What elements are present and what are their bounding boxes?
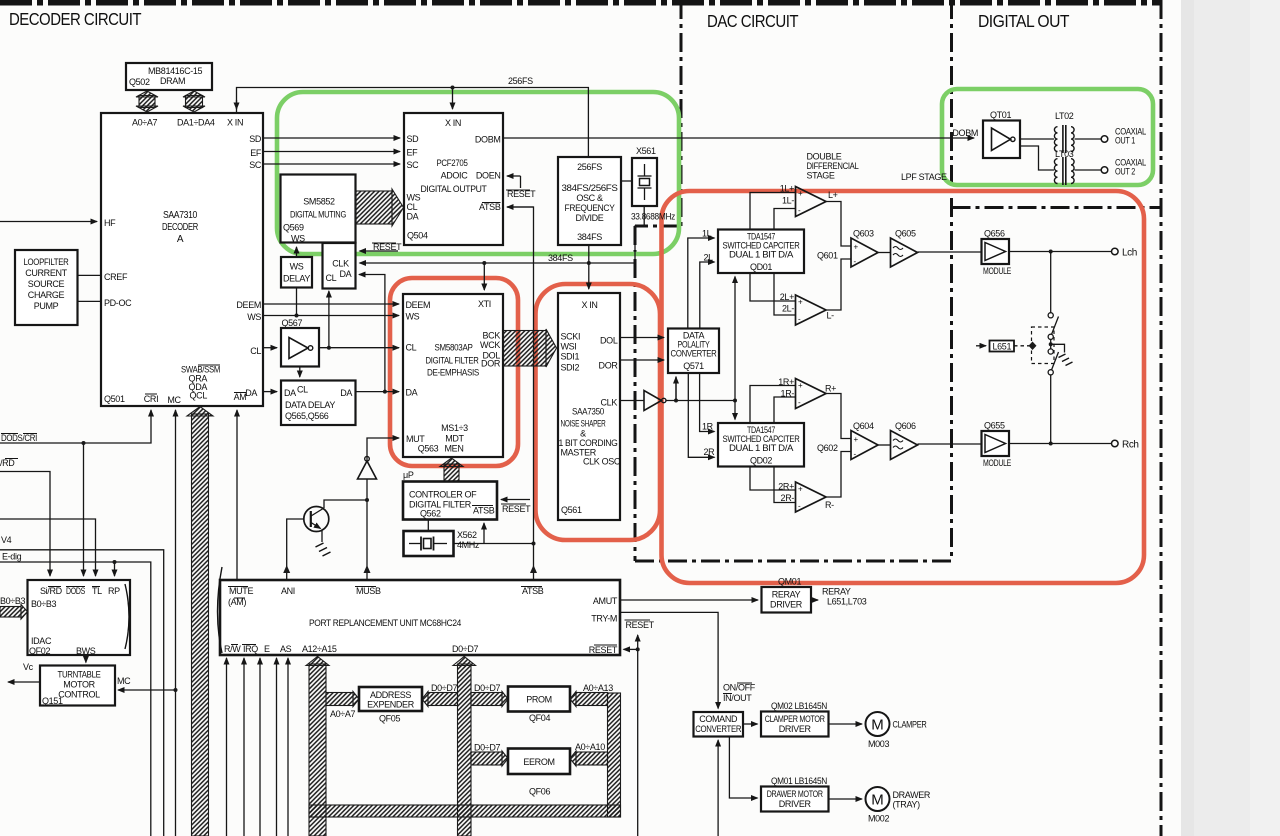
svg-text:B0÷B3: B0÷B3 xyxy=(31,599,57,609)
CLAMPER MOTOR DRIVER block xyxy=(761,712,829,737)
svg-text:WS: WS xyxy=(290,262,304,272)
svg-text:TURNTABLE: TURNTABLE xyxy=(58,670,101,680)
svg-text:OUT 1: OUT 1 xyxy=(1115,136,1135,146)
svg-text:Q567: Q567 xyxy=(282,318,303,328)
svg-text:WS: WS xyxy=(407,193,421,203)
wire R- output to Q604 xyxy=(826,452,851,498)
svg-text:SDI2: SDI2 xyxy=(561,363,580,373)
wire Q567 down into DATA DELAY xyxy=(299,367,301,378)
svg-text:+: + xyxy=(798,189,803,198)
svg-text:RERAY: RERAY xyxy=(822,587,851,597)
svg-text:R-: R- xyxy=(825,500,834,510)
svg-text:COMAND: COMAND xyxy=(699,714,738,724)
svg-text:Q563: Q563 xyxy=(418,444,439,454)
wire MC from SAA7310 to bottom, branch to turntable xyxy=(118,410,178,836)
ADDRESS EXPENDER block QF05 xyxy=(359,687,422,724)
bus A12-A15 from PORT down xyxy=(306,657,329,836)
svg-text:E-dig: E-dig xyxy=(2,552,22,562)
wire HF from left edge xyxy=(0,221,97,223)
svg-text:SC: SC xyxy=(249,160,262,170)
net 256FS: label and wire across top xyxy=(237,76,589,157)
svg-text:LPF STAGE: LPF STAGE xyxy=(901,172,947,182)
net RESET at PORT right xyxy=(624,620,655,836)
svg-text:Q151: Q151 xyxy=(42,696,63,706)
svg-text:ADDRESS: ADDRESS xyxy=(370,690,411,700)
net E-dig (label + wire, branch to RP) xyxy=(0,552,151,836)
svg-text:Si/RD: Si/RD xyxy=(40,586,63,596)
wire Q562 to X562 left xyxy=(427,520,429,532)
svg-text:L651: L651 xyxy=(992,342,1011,352)
svg-text:TRY-M: TRY-M xyxy=(591,614,617,624)
bus B0-B3 hatched into QF02 xyxy=(0,607,21,618)
svg-text:2L-: 2L- xyxy=(782,304,794,314)
svg-text:CLAMPER: CLAMPER xyxy=(893,720,928,730)
svg-text:1L-: 1L- xyxy=(782,196,794,206)
svg-text:Q655: Q655 xyxy=(984,421,1005,431)
wire WS delay to SM5852 xyxy=(296,247,298,257)
svg-text:Vc: Vc xyxy=(23,662,34,672)
svg-text:ATSB: ATSB xyxy=(473,506,495,516)
svg-text:DA1÷DA4: DA1÷DA4 xyxy=(177,118,215,128)
svg-text:MS1÷3: MS1÷3 xyxy=(441,423,468,433)
svg-text:Rch: Rch xyxy=(1122,440,1139,451)
digital out driver QT01 xyxy=(983,110,1020,158)
svg-text:DIGITAL OUTPUT: DIGITAL OUTPUT xyxy=(421,184,488,194)
svg-text:-: - xyxy=(798,502,801,511)
svg-text:QT01: QT01 xyxy=(990,110,1011,120)
wire PD-OC xyxy=(78,300,102,302)
wire DOR SAA7350 to Q571 xyxy=(620,359,664,361)
wire 2R from Q571 to QD02 xyxy=(688,373,715,457)
net /RD (label + wire to Si/RD) xyxy=(0,458,50,576)
wire CL into Q567 xyxy=(263,347,277,349)
svg-text:33.8688MHz: 33.8688MHz xyxy=(631,212,676,222)
svg-text:Q605: Q605 xyxy=(895,229,916,239)
wire Q603 to Q605 xyxy=(878,252,891,254)
wire AS stub below PORT xyxy=(276,658,278,836)
svg-text:1L+: 1L+ xyxy=(780,184,794,194)
amp Q603 xyxy=(851,229,878,268)
svg-text:CURRENT: CURRENT xyxy=(25,268,67,278)
wire QT01 to LT02 xyxy=(1020,138,1054,140)
DAC circuit dash-dot border jog xyxy=(635,225,681,228)
svg-text:V4: V4 xyxy=(1,535,12,545)
labels ON/OFF IN/OUT xyxy=(723,683,756,704)
svg-text:-: - xyxy=(798,315,801,324)
PCF2705 ADOIC digital output block Q504 xyxy=(404,113,503,245)
svg-text:SM5852: SM5852 xyxy=(303,197,335,207)
svg-text:CONVERTER: CONVERTER xyxy=(695,724,742,734)
svg-text:WSI: WSI xyxy=(561,342,577,352)
wire drawer driver to motor M002 xyxy=(829,798,863,800)
DAC/DIGITAL OUT divider dash-dot vertical xyxy=(950,0,953,561)
svg-text:384FS: 384FS xyxy=(577,232,602,242)
svg-text:CLK: CLK xyxy=(332,259,349,269)
svg-text:PCF2705: PCF2705 xyxy=(437,158,468,168)
svg-text:PUMP: PUMP xyxy=(34,301,59,311)
coaxial out 1 terminal xyxy=(1101,127,1146,146)
svg-text:DIGITAL FILTER: DIGITAL FILTER xyxy=(426,356,480,366)
bus ring right vertical xyxy=(608,693,621,817)
svg-text:CHARGE: CHARGE xyxy=(28,290,65,300)
svg-text:WS: WS xyxy=(291,234,305,244)
svg-text:DOEN: DOEN xyxy=(476,171,501,181)
wire 2L from Q571 to QD01 xyxy=(700,253,715,329)
label DOUBLE DIFFERENCIAL STAGE xyxy=(807,152,859,181)
svg-text:A0÷A10: A0÷A10 xyxy=(575,742,605,752)
svg-text:D0÷D7: D0÷D7 xyxy=(474,743,501,753)
wire AMUT to reray driver xyxy=(620,599,758,601)
wire 2R- QD02 to opamp xyxy=(774,467,796,503)
LOOPFILTER block xyxy=(15,250,78,325)
wire DEEM xyxy=(263,303,399,305)
svg-text:CL: CL xyxy=(297,385,308,395)
svg-text:RESET: RESET xyxy=(589,645,618,655)
svg-text:Q601: Q601 xyxy=(817,251,838,261)
svg-text:EEROM: EEROM xyxy=(523,757,554,767)
svg-text:DA: DA xyxy=(340,388,352,398)
svg-text:AM: AM xyxy=(234,392,247,402)
svg-text:DRAWER: DRAWER xyxy=(893,790,931,800)
svg-text:2R-: 2R- xyxy=(781,493,795,503)
svg-text:DIGITAL OUT: DIGITAL OUT xyxy=(978,11,1070,31)
SM5803AP digital filter block Q563 xyxy=(403,294,503,457)
svg-text:LOOPFILTER: LOOPFILTER xyxy=(24,257,70,267)
svg-text:MC: MC xyxy=(117,676,131,686)
svg-text:CLK OSC: CLK OSC xyxy=(583,457,621,467)
svg-text:X IN: X IN xyxy=(581,300,597,310)
wire Vc (arrow left) xyxy=(8,662,40,682)
svg-text:QM01 LB1645N: QM01 LB1645N xyxy=(771,776,827,786)
svg-text:WS: WS xyxy=(406,312,420,322)
bus A12 branch to ADDRESS EXPENDER xyxy=(326,692,359,720)
svg-text:MUTE: MUTE xyxy=(229,586,253,596)
svg-text:NOISE SHAPER: NOISE SHAPER xyxy=(561,419,607,429)
svg-text:DRIVER: DRIVER xyxy=(779,724,812,734)
svg-text:L+: L+ xyxy=(828,190,838,200)
DAC TDA1547 QD01 xyxy=(718,230,804,274)
bus D0-D7 from PORT down xyxy=(453,657,476,836)
WS DELAY block xyxy=(281,257,312,288)
mute driver triangle with bubble xyxy=(358,456,377,479)
svg-text:A0÷A13: A0÷A13 xyxy=(583,683,613,693)
svg-text:SM5803AP: SM5803AP xyxy=(435,343,473,353)
bus EEROM to ring right xyxy=(570,742,608,766)
svg-text:A0÷A7: A0÷A7 xyxy=(132,118,158,128)
svg-text:X IN: X IN xyxy=(227,118,243,128)
svg-text:QF04: QF04 xyxy=(529,713,550,723)
svg-text:SC: SC xyxy=(407,160,420,170)
svg-text:DIFFERENCIAL: DIFFERENCIAL xyxy=(807,161,859,171)
svg-text:Q502: Q502 xyxy=(129,77,150,87)
svg-text:+: + xyxy=(798,298,803,307)
CONTROLER OF DIGITAL FILTER block Q562 xyxy=(403,482,497,520)
wire comand to drawer driver xyxy=(729,737,757,799)
green annotation box 2 (digital out area) xyxy=(942,89,1153,185)
svg-text:DA: DA xyxy=(284,388,296,398)
transformer LT02 xyxy=(1054,111,1074,153)
svg-text:Q603: Q603 xyxy=(853,229,874,239)
svg-text:MB81416C-15: MB81416C-15 xyxy=(148,66,203,76)
svg-text:BCK: BCK xyxy=(483,331,501,341)
wire DOBM long line to QT01 xyxy=(503,137,974,139)
svg-text:QM01: QM01 xyxy=(778,577,801,587)
svg-text:L651,L703: L651,L703 xyxy=(827,597,867,607)
svg-text:1 BIT CORDING: 1 BIT CORDING xyxy=(559,438,618,448)
EEROM block QF06 xyxy=(508,749,570,797)
svg-text:CL: CL xyxy=(406,343,417,353)
svg-text:R/W: R/W xyxy=(224,644,241,654)
wire CL Q567 to SM5803AP xyxy=(319,347,399,349)
LPF Q606 xyxy=(891,421,918,460)
svg-text:D0÷D7: D0÷D7 xyxy=(431,683,458,693)
wire 2L- QD01 to opamp xyxy=(774,273,796,315)
svg-text:LT02: LT02 xyxy=(1055,111,1074,121)
bus bottom ring horizontal xyxy=(309,805,621,817)
svg-text:CLAMPER MOTOR: CLAMPER MOTOR xyxy=(765,714,826,724)
svg-text:IN/OUT: IN/OUT xyxy=(723,693,752,703)
svg-text:SD: SD xyxy=(407,134,420,144)
svg-text:ADOIC: ADOIC xyxy=(441,171,469,181)
svg-text:MUT: MUT xyxy=(406,434,425,444)
wire QT01 to LT03 xyxy=(1020,146,1054,170)
wire WS xyxy=(263,315,399,317)
wire MUSB from triangle to PORT xyxy=(364,479,371,580)
svg-text:2R+: 2R+ xyxy=(778,482,794,492)
svg-text:E: E xyxy=(264,644,270,654)
svg-text:HF: HF xyxy=(104,218,116,228)
DRAM block Q502 MB81416C-15 xyxy=(126,63,212,90)
transformer LT03 xyxy=(1054,149,1074,185)
net 384FS: wire, label, branches xyxy=(360,207,645,291)
wire OSC to X561 xyxy=(621,180,632,182)
PORT REPLANCEMENT UNIT MC68HC24 xyxy=(218,567,621,655)
svg-text:ATSB: ATSB xyxy=(522,586,544,596)
svg-text:(TRAY): (TRAY) xyxy=(893,800,921,810)
svg-text:DEEM: DEEM xyxy=(236,300,261,310)
op-amp L+ xyxy=(796,187,838,217)
wire Lch output line xyxy=(1009,248,1137,259)
wire 2R+ QD02 to opamp xyxy=(750,467,796,491)
amp Q604 xyxy=(851,421,878,460)
DAC TDA1547 QD02 xyxy=(718,423,804,467)
svg-text:DIGITAL MUTING: DIGITAL MUTING xyxy=(290,210,346,220)
svg-text:DRIVER: DRIVER xyxy=(779,799,812,809)
svg-text:Q604: Q604 xyxy=(853,421,874,431)
wire R/W stub below PORT xyxy=(226,658,228,836)
svg-text:/RD: /RD xyxy=(0,458,15,468)
svg-text:A: A xyxy=(177,234,184,245)
svg-text:2L+: 2L+ xyxy=(780,292,794,302)
net TL wire from left edge xyxy=(0,519,96,576)
wire LT03 to coax out 2 xyxy=(1075,169,1102,171)
svg-text:SD: SD xyxy=(249,134,262,144)
svg-text:2R: 2R xyxy=(704,447,716,457)
svg-text:DA: DA xyxy=(406,388,418,398)
svg-text:R+: R+ xyxy=(825,384,836,394)
svg-text:384FS/256FS: 384FS/256FS xyxy=(562,183,618,193)
wire MUT from triangle to SM5803AP xyxy=(367,438,399,461)
svg-text:DRAWER MOTOR: DRAWER MOTOR xyxy=(767,789,824,799)
svg-text:1R-: 1R- xyxy=(781,389,795,399)
wire SC xyxy=(263,163,400,165)
svg-text:SAA7350: SAA7350 xyxy=(572,407,604,417)
DIGITAL OUT dash-dot border bottom xyxy=(952,206,1162,209)
svg-text:IDAC: IDAC xyxy=(31,636,52,646)
svg-text:MEN: MEN xyxy=(445,444,464,454)
svg-text:Q656: Q656 xyxy=(984,229,1005,239)
wire into comand converter bottom xyxy=(717,740,719,836)
CLK / CL DA block xyxy=(323,243,356,289)
wire Q606 to module Q655 xyxy=(918,443,982,445)
wire CLK down into QD02 top xyxy=(734,401,736,420)
svg-text:D0÷D7: D0÷D7 xyxy=(474,683,501,693)
svg-text:M: M xyxy=(871,792,884,809)
svg-text:LT03: LT03 xyxy=(1055,149,1074,159)
bus SM5852 to PCF2705 (hatched with arrow) xyxy=(356,189,404,226)
svg-text:256FS: 256FS xyxy=(577,162,602,172)
svg-text:QF02: QF02 xyxy=(29,646,50,656)
DRAWER MOTOR DRIVER block xyxy=(761,787,829,812)
svg-text:DOR: DOR xyxy=(599,361,619,371)
wire 1L from Q571 to QD01 xyxy=(688,229,715,329)
svg-text:DECODER CIRCUIT: DECODER CIRCUIT xyxy=(9,9,142,29)
wire E stub below PORT xyxy=(259,658,261,836)
svg-text:QF06: QF06 xyxy=(529,787,550,797)
svg-text:D0÷D7: D0÷D7 xyxy=(452,644,479,654)
svg-text:DUAL 1 BIT D/A: DUAL 1 BIT D/A xyxy=(729,443,793,453)
motor M002 (DRAWER TRAY) xyxy=(866,787,931,824)
op-amp R+ xyxy=(796,379,837,409)
svg-text:DOBM: DOBM xyxy=(475,135,501,145)
svg-text:DODS/CRI: DODS/CRI xyxy=(1,433,37,443)
net DODS/CRI (label + wire to CRI and DODS) xyxy=(0,410,151,576)
svg-text:Q606: Q606 xyxy=(895,421,916,431)
DAC circuit dash-dot border left (lower) xyxy=(634,226,637,561)
svg-text:384FS: 384FS xyxy=(548,253,573,263)
svg-text:1R+: 1R+ xyxy=(778,377,794,387)
svg-text:Q565,Q566: Q565,Q566 xyxy=(285,411,329,421)
DAC circuit dash-dot border bottom xyxy=(635,560,952,563)
svg-text:QM02 LB1645N: QM02 LB1645N xyxy=(771,701,827,711)
svg-text:TL: TL xyxy=(92,586,102,596)
svg-text:DOUBLE: DOUBLE xyxy=(807,152,842,162)
svg-text:+: + xyxy=(854,435,859,444)
op-amp L- xyxy=(796,295,835,325)
bus EXPENDER to D0 bus xyxy=(422,683,458,707)
wire CLK SAA7350 to buffer xyxy=(620,400,644,402)
wire 1R- QD02 to opamp xyxy=(774,397,796,423)
svg-text:+: + xyxy=(798,381,803,390)
svg-text:SDI1: SDI1 xyxy=(561,352,580,362)
wire IRQ stub below PORT xyxy=(243,658,245,836)
svg-text:CONTROL: CONTROL xyxy=(58,690,100,700)
COMAND CONVERTER block xyxy=(694,712,744,737)
svg-text:X562: X562 xyxy=(457,530,477,540)
net ATSB from PCF2705 down to PORT xyxy=(507,207,537,580)
DATA DELAY block Q565,Q566 xyxy=(281,381,356,426)
svg-text:X IN: X IN xyxy=(445,118,461,128)
wire DOL SAA7350 to Q571 xyxy=(620,337,664,339)
PROM block QF04 xyxy=(508,687,570,724)
svg-text:1R: 1R xyxy=(702,422,714,432)
motor M003 (CLAMPER) xyxy=(866,712,928,749)
svg-text:QD01: QD01 xyxy=(750,262,772,272)
svg-text:PROM: PROM xyxy=(526,695,552,705)
wire LT02 to coax out 1 xyxy=(1075,138,1102,140)
red annotation box 3 (DAC analog area) xyxy=(662,191,1145,583)
svg-text:DA: DA xyxy=(407,212,419,222)
wire transistor base to ANI xyxy=(283,519,304,580)
svg-text:-: - xyxy=(854,450,857,459)
wire 1L- QD01 to opamp xyxy=(774,209,796,230)
svg-text:-: - xyxy=(798,206,801,215)
Q567 inverter xyxy=(281,318,319,367)
wire 2L+ QD01 to opamp xyxy=(750,273,796,301)
svg-text:ATSB: ATSB xyxy=(479,202,501,212)
svg-text:MDT: MDT xyxy=(445,434,464,444)
wire CREF xyxy=(78,274,102,276)
svg-text:M003: M003 xyxy=(868,739,889,749)
wire L+ output to Q603 xyxy=(826,202,851,247)
svg-text:2L: 2L xyxy=(704,253,714,263)
svg-text:CREF: CREF xyxy=(104,272,128,282)
wire CLK distribution line xyxy=(666,399,737,403)
svg-text:+: + xyxy=(854,243,859,252)
wire collector branch to transistor xyxy=(324,500,367,508)
big hatched bus from SAA7310 bottom to page bottom xyxy=(187,407,213,836)
svg-text:ANI: ANI xyxy=(281,586,295,596)
svg-text:MODULE: MODULE xyxy=(983,266,1011,276)
wire 1R+ QD02 to opamp xyxy=(750,386,796,424)
svg-text:Q602: Q602 xyxy=(817,443,838,453)
svg-text:WCK: WCK xyxy=(480,340,500,350)
svg-text:QD02: QD02 xyxy=(750,456,772,466)
wire CLK up into Q571 bottom xyxy=(675,377,677,401)
svg-text:ON/OFF: ON/OFF xyxy=(723,683,756,693)
svg-text:M002: M002 xyxy=(868,814,889,824)
bus SM5803AP to Q562 (hatched arrow up) xyxy=(440,458,463,482)
wire DA up to CLK box xyxy=(359,275,385,392)
DAC circuit dash-dot border left (upper) xyxy=(680,0,683,226)
svg-text:CL: CL xyxy=(407,202,418,212)
svg-text:RERAY: RERAY xyxy=(772,590,801,600)
red annotation box 2 (noise shaper) xyxy=(536,284,661,540)
svg-text:OUT 2: OUT 2 xyxy=(1115,167,1135,177)
svg-text:CRI: CRI xyxy=(144,394,158,404)
wire RESET into Q562 xyxy=(501,500,531,515)
wire TRY-M to comand converter xyxy=(620,612,718,708)
SM5852 digital muting block Q569 xyxy=(281,175,356,244)
wire L- output to Q603 xyxy=(826,259,851,310)
right page dash-dot border xyxy=(1160,0,1163,836)
svg-text:256FS: 256FS xyxy=(508,76,533,86)
svg-text:DELAY: DELAY xyxy=(283,274,310,284)
svg-text:SOURCE: SOURCE xyxy=(28,279,65,289)
svg-text:QCL: QCL xyxy=(190,391,208,401)
svg-text:MC: MC xyxy=(167,395,181,405)
transistor Q (NPN) with ground xyxy=(304,507,331,557)
svg-text:RESET: RESET xyxy=(502,504,531,514)
wire Q605 to module Q656 xyxy=(918,251,982,253)
svg-text:X561: X561 xyxy=(636,146,656,156)
svg-text:CL: CL xyxy=(326,273,337,283)
op-amp R- xyxy=(796,482,835,512)
svg-text:DOL: DOL xyxy=(600,336,618,346)
muting switch chain between Lch and Rch xyxy=(1048,252,1058,444)
svg-text:μP: μP xyxy=(403,470,414,480)
svg-text:-: - xyxy=(798,398,801,407)
